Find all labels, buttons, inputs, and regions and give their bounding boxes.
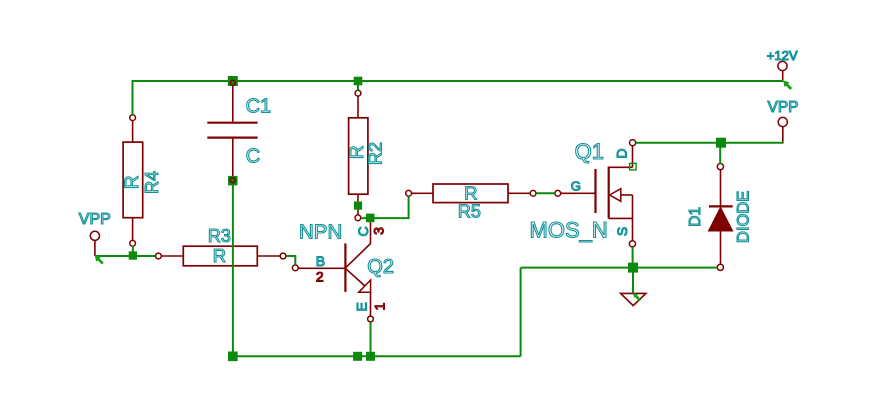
- svg-text:R: R: [213, 245, 226, 266]
- ground symbol: [621, 293, 646, 305]
- resistor R2 top pin end: [355, 90, 361, 96]
- power port VPP (left) label: [79, 211, 111, 228]
- Q2 pin name C: [355, 226, 371, 236]
- wire R5 right to Q1 gate: [536, 192, 555, 194]
- diode D1 top pin end: [717, 164, 723, 170]
- svg-text:R: R: [464, 182, 477, 203]
- Q2 emitter pin end: [368, 316, 374, 322]
- svg-text:DIODE: DIODE: [734, 191, 752, 243]
- svg-text:C: C: [246, 146, 260, 168]
- diode D1 ref label D1: [687, 207, 704, 227]
- Q2 pin number 1: [371, 302, 387, 310]
- power port VPP (right): [778, 117, 787, 142]
- resistor R5 right pin end: [530, 190, 536, 196]
- diode D1: [708, 170, 732, 264]
- svg-text:S: S: [614, 227, 630, 236]
- resistor R4 ref label R4: [142, 171, 162, 194]
- diode D1 bottom pin end: [717, 264, 723, 270]
- Q2 pin name E: [354, 302, 370, 311]
- svg-text:Q2: Q2: [367, 256, 394, 278]
- Q1 ref label Q1: [575, 139, 604, 164]
- Q1 source pin end: [629, 241, 635, 247]
- svg-text:3: 3: [371, 227, 387, 235]
- transistor Q2 ref label Q2: [367, 256, 394, 278]
- resistor R3 right pin end: [280, 253, 286, 259]
- resistor R2 body: [349, 96, 368, 215]
- Q2 pin number 3: [371, 227, 387, 235]
- svg-text:+12V: +12V: [767, 48, 798, 63]
- resistor R4 bottom pin end: [130, 240, 136, 246]
- diode D1 value label DIODE: [734, 191, 752, 243]
- power port VPP (left): [90, 231, 99, 256]
- resistor R2 ref label R2: [365, 142, 385, 165]
- svg-text:R3: R3: [208, 226, 231, 246]
- Q1 drain pin end: [630, 140, 636, 146]
- resistor R5 body: [412, 184, 531, 203]
- svg-text:VPP: VPP: [79, 211, 111, 228]
- Q1 gate pin end: [555, 190, 561, 196]
- svg-text:C1: C1: [246, 96, 272, 118]
- junction at R4 bottom / VPP-left node: [129, 251, 137, 259]
- Q2 base pin end: [292, 265, 298, 271]
- junction small square on R2 lower pin: [354, 202, 362, 210]
- wire VPP-left to junction to R3 left pin: [95, 255, 155, 257]
- resistor R3 value label R: [213, 245, 226, 266]
- svg-text:R4: R4: [142, 171, 162, 194]
- svg-text:R2: R2: [365, 142, 385, 165]
- junction at Q2 collector node: [366, 214, 375, 223]
- wire bottom rail: [233, 355, 521, 357]
- junction bottom-left corner: [228, 352, 238, 362]
- wire C1 bottom vertical run: [232, 185, 234, 357]
- power port +12V: [778, 61, 787, 81]
- svg-text:R5: R5: [458, 202, 481, 222]
- svg-text:MOS_N: MOS_N: [530, 218, 608, 243]
- resistor R3 body: [161, 246, 280, 266]
- transistor Q2 value label NPN: [299, 220, 342, 243]
- svg-text:2: 2: [316, 268, 324, 284]
- junction at C1 top on rail: [228, 76, 238, 86]
- wire R2 drop from rail: [357, 81, 359, 90]
- svg-text:C: C: [355, 226, 371, 236]
- wire R3 right to Q2 base: [286, 256, 295, 265]
- Q1 pin name D: [614, 148, 630, 158]
- wire D1 top pin to drain-rail junction: [719, 146, 721, 164]
- wire bottom riser: [520, 268, 522, 357]
- resistor R4 body: [123, 121, 143, 241]
- Q1 pin name S: [614, 227, 630, 236]
- resistor R3 ref label R3: [208, 226, 231, 246]
- svg-text:NPN: NPN: [299, 220, 342, 243]
- junction at D1 top on drain rail: [716, 138, 726, 148]
- wire ground stub: [632, 272, 634, 293]
- svg-text:R: R: [122, 175, 143, 189]
- wire top-left drop to R4: [132, 80, 134, 115]
- capacitor C1 ref label C1: [246, 96, 272, 118]
- resistor R5 ref label R5: [458, 202, 481, 222]
- cursor arrow at +12V node: [783, 81, 791, 89]
- junction bottom rail at Q2 emitter: [366, 352, 375, 361]
- resistor R5 left pin end: [406, 190, 412, 196]
- svg-text:D1: D1: [687, 207, 704, 227]
- junction at Q1 source node: [628, 263, 638, 273]
- resistor R4 value label R: [122, 175, 143, 189]
- capacitor C1: [207, 85, 257, 176]
- power port VPP (right) label: [768, 99, 799, 116]
- svg-text:E: E: [354, 302, 370, 311]
- junction bottom rail (R2 axis): [353, 352, 362, 361]
- power port +12V label: [767, 48, 798, 63]
- capacitor C1 value label C: [246, 146, 260, 168]
- Q2 pin name B: [316, 253, 325, 269]
- wire Q1 source drop: [632, 247, 634, 263]
- junction at R2 top on rail: [354, 77, 363, 86]
- transistor Q2 (NPN): [298, 222, 370, 316]
- svg-text:Q1: Q1: [575, 139, 604, 164]
- resistor R4 top pin end: [130, 115, 136, 121]
- wire R2 bottom / Q2 collector to R5 left: [361, 196, 409, 218]
- cursor arrow at VPP-left node: [95, 255, 103, 263]
- resistor R2 value label R: [347, 145, 368, 159]
- Q2 pin number 2: [316, 268, 324, 284]
- svg-text:B: B: [316, 253, 325, 269]
- wire top rail: [132, 80, 783, 82]
- resistor R2 bottom pin end: [355, 215, 361, 221]
- resistor R5 value label R: [464, 182, 477, 203]
- wire Q2 emitter drop: [370, 322, 372, 356]
- transistor Q1 (MOS_N): [561, 147, 633, 241]
- svg-text:1: 1: [371, 302, 387, 310]
- wire mid rail (source/ground net): [521, 267, 718, 269]
- svg-text:D: D: [614, 148, 630, 158]
- svg-text:VPP: VPP: [768, 99, 799, 116]
- Q1 drain dangling marker (hollow green square): [630, 163, 637, 170]
- junction at C1 bottom pin: [228, 176, 238, 186]
- Q1 value label MOS_N: [530, 218, 608, 243]
- wire R4 bottom pin to junction: [132, 246, 134, 253]
- cursor diagonal at ground: [633, 293, 640, 300]
- Q1 pin name G: [571, 179, 581, 194]
- wire drain rail to VPP-right: [636, 142, 784, 144]
- resistor R3 left pin end: [156, 253, 162, 259]
- svg-text:G: G: [571, 179, 581, 194]
